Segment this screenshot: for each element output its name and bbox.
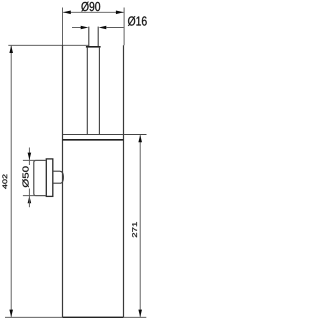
dim Ø90 line: [63, 11, 123, 13]
dim Ø50 top line: [28, 148, 30, 166]
dim 271 text: [132, 222, 137, 237]
dim Ø90 right arrow: [116, 11, 124, 15]
dim 271 bottom arrow: [138, 310, 142, 317]
neck bulge: [60, 171, 63, 183]
bottom extension line: [5, 316, 146, 318]
dim Ø16 left arrow: [81, 26, 89, 30]
dim 402 top arrow: [9, 46, 13, 53]
dim 271 top arrow: [138, 135, 142, 142]
dim Ø16 left line: [72, 27, 81, 29]
dim Ø16 text: [128, 16, 147, 26]
collar top line + 271 top extension: [63, 134, 147, 136]
dim Ø50 bottom extension line: [23, 195, 46, 197]
body bottom edge: [63, 316, 124, 318]
dim Ø50 text: [22, 166, 28, 187]
dim Ø90 text: [81, 2, 100, 12]
wall plate: [34, 160, 46, 195]
body right edge: [123, 45, 125, 317]
top extension line / lid top: [8, 44, 88, 46]
dim 271 line: [139, 135, 141, 317]
neck bottom line: [53, 182, 60, 184]
dim Ø50 bottom arrow: [28, 196, 32, 203]
flange: [46, 159, 53, 197]
dim 402 text: [2, 174, 7, 188]
dim Ø90 left extension line: [62, 8, 64, 46]
collar bottom line: [63, 139, 124, 141]
dim Ø50 bottom line: [28, 189, 30, 208]
dim 402 line: [10, 46, 12, 317]
dim Ø16 right line: [106, 27, 124, 29]
dim Ø90 left arrow: [63, 11, 71, 15]
sleeve right edge: [98, 47, 100, 135]
sleeve left edge: [86, 47, 88, 135]
sleeve cap: [86, 46, 101, 48]
dim Ø16 right arrow: [99, 26, 107, 30]
brush rod left edge: [88, 27, 90, 47]
dim Ø50 top extension line: [23, 159, 46, 161]
brush rod right edge: [97, 27, 99, 47]
dim Ø90 right extension line: [123, 8, 125, 46]
dim 402 bottom arrow: [9, 310, 13, 317]
body left edge: [62, 45, 64, 317]
neck top line: [53, 170, 60, 172]
dim Ø50 top arrow: [28, 153, 32, 160]
